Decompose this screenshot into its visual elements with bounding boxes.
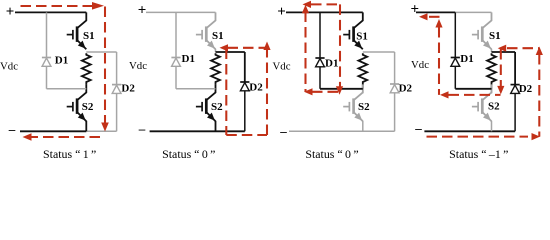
red arrow up (circuit 4 left): [435, 19, 442, 28]
wire red path left vertical (circuit 4): [438, 27, 440, 95]
transistor S1 (IGBT, conducting): [67, 12, 95, 49]
transistor S1 (IGBT, conducting): [343, 12, 368, 49]
svg-text:D2: D2: [399, 83, 413, 95]
red arrow left (circuit 3 loop top): [303, 1, 312, 8]
resistor load (circuit 1): [82, 53, 91, 83]
svg-text:S2: S2: [358, 101, 370, 113]
wire red current path, right vertical (circuit 1): [104, 7, 106, 124]
wire resistor to S2 (circuit 2): [215, 83, 217, 86]
diode D1 (circuit 1, inactive): [42, 12, 51, 88]
svg-text:–: –: [138, 121, 146, 136]
svg-text:S1: S1: [212, 30, 224, 42]
wire red loop right vertical (circuit 3): [339, 4, 341, 87]
wire red path bottom horizontal (circuit 4): [427, 136, 529, 138]
wire red path node A horizontal (circuit 4): [507, 47, 539, 49]
svg-text:D2: D2: [519, 83, 533, 95]
red arrow up (circuit 4 right): [536, 47, 543, 56]
wire node B to S2 (circuit 3, inactive): [362, 89, 364, 94]
wire bottom rail (circuit 4): [424, 130, 515, 132]
wire node A to D2 (circuit 1, inactive): [86, 51, 116, 53]
red arrow left into node A (circuit 4): [498, 45, 507, 52]
wire red path right vertical (circuit 4): [538, 54, 540, 137]
transistor S1 (IGBT, off): [472, 12, 501, 49]
diode D1 (circuit 3, conducting): [315, 12, 324, 88]
diode D2 (circuit 3, inactive): [390, 84, 399, 131]
wire S2 emitter to bottom rail (circuit 1): [85, 121, 87, 132]
svg-text:–: –: [414, 121, 422, 136]
wire resistor to node B (circuit 4): [491, 84, 493, 89]
svg-text:S2: S2: [488, 101, 500, 113]
wire red loop bottom (circuit 3): [312, 91, 340, 93]
wire red loop top (circuit 2): [228, 47, 268, 49]
red arrow up (circuit 3 loop left): [302, 5, 309, 14]
red arrow left (circuit 1 bottom): [23, 133, 32, 141]
red arrow right (circuit 1 top): [92, 2, 104, 10]
red arrow left (circuit 2 loop top): [220, 44, 229, 51]
transistor S2 (IGBT, conducting): [196, 84, 223, 121]
svg-text:+: +: [411, 2, 420, 18]
red arrow down through load (circuit 4): [497, 86, 504, 95]
wire resistor to node B (circuit 3): [362, 84, 364, 89]
wire red loop bottom (circuit 2): [226, 134, 267, 136]
wire red current path, top (circuit 1): [21, 5, 94, 7]
svg-text:Vdc: Vdc: [411, 59, 429, 71]
wire red path lower-left horizontal (circuit 4): [449, 94, 501, 96]
wire D1 to node B (circuit 3, conducting): [320, 88, 363, 90]
red arrow down (circuit 3 loop right): [336, 86, 343, 95]
transistor S2 (IGBT, off): [472, 84, 500, 121]
wire node B to S2 (circuit 4, inactive): [491, 89, 493, 94]
red arrow up (circuit 2 loop right): [263, 42, 270, 51]
wire top rail (circuit 3, conducting): [286, 11, 363, 13]
wire red loop left vertical (circuit 2): [225, 49, 227, 136]
svg-text:S1: S1: [83, 30, 95, 42]
svg-text:D2: D2: [121, 83, 135, 95]
resistor load (circuit 3): [358, 53, 367, 83]
transistor S2 (IGBT, off): [343, 84, 370, 121]
svg-text:D1: D1: [460, 53, 473, 65]
transistor S1 (IGBT, off): [196, 12, 224, 49]
wire D1 to node B (circuit 1, inactive): [47, 88, 87, 90]
wire node A to D2 (circuit 2, conducting): [216, 51, 245, 53]
wire S2 emitter to bottom rail (circuit 2): [215, 121, 217, 132]
svg-text:Status “ 0 ”: Status “ 0 ”: [305, 147, 358, 161]
wire bottom rail (circuit 1): [20, 130, 86, 132]
svg-text:+: +: [277, 4, 286, 20]
diode D1 (circuit 4, conducting): [451, 12, 460, 88]
wire top rail to D1 (circuit 4, conducting): [416, 11, 455, 13]
wire red path load vertical (circuit 4): [500, 49, 502, 87]
svg-text:Status “ 0 ”: Status “ 0 ”: [162, 147, 215, 161]
diode D1 (circuit 2, inactive): [171, 12, 180, 88]
wire red current path, bottom (circuit 1): [32, 136, 101, 138]
svg-text:+: +: [6, 4, 15, 20]
wire red loop left vertical (circuit 3): [304, 12, 306, 92]
wire D1 to node B (circuit 4, conducting): [455, 88, 491, 90]
wire bottom rail (circuit 2): [150, 130, 245, 132]
svg-text:–: –: [279, 124, 287, 139]
svg-text:S2: S2: [82, 101, 94, 113]
wire resistor to S2 (circuit 1): [85, 83, 87, 86]
wire top rail (circuit 2, inactive): [146, 11, 216, 13]
diode D2 (circuit 1, inactive): [112, 85, 121, 132]
transistor S2 (IGBT, conducting): [67, 84, 94, 121]
red arrow down (circuit 1 right): [101, 123, 109, 132]
wire bottom rail (circuit 3, inactive): [289, 130, 395, 132]
wire S1 emitter to node A (circuit 2, inactive): [215, 49, 217, 52]
wire S2 emitter to bottom rail (circuit 3, inactive): [362, 121, 364, 132]
svg-text:S1: S1: [489, 30, 501, 42]
wire D1 to node B (circuit 2, inactive): [176, 88, 216, 90]
svg-text:S2: S2: [211, 101, 223, 113]
red arrow left (circuit 3 loop bottom): [304, 88, 313, 95]
wire red loop top (circuit 3): [311, 3, 340, 5]
svg-text:D2: D2: [249, 82, 263, 94]
resistor load (circuit 2): [211, 53, 220, 83]
svg-text:D1: D1: [182, 53, 195, 65]
svg-text:–: –: [8, 121, 16, 136]
wire top rail (circuit 1): [15, 11, 86, 13]
diode D2 (circuit 2, conducting): [240, 82, 249, 131]
svg-text:D1: D1: [325, 58, 338, 70]
red arrow left into + (circuit 4): [419, 13, 428, 20]
resistor load (circuit 4): [487, 53, 496, 83]
wire red path top-left horizontal (circuit 4): [429, 16, 442, 18]
wire node A to D2 (circuit 4, conducting): [492, 51, 516, 53]
svg-text:Vdc: Vdc: [273, 61, 291, 73]
svg-text:Vdc: Vdc: [0, 61, 18, 73]
svg-text:Vdc: Vdc: [129, 60, 147, 72]
wire node A to D2 (circuit 3, inactive): [363, 51, 395, 53]
wire S1 emitter to node A (circuit 4, inactive): [491, 49, 493, 52]
svg-text:Status “ –1 ”: Status “ –1 ”: [449, 147, 508, 161]
svg-text:+: +: [138, 2, 147, 18]
diode D2 (circuit 4, conducting): [511, 85, 520, 132]
wire bottom rail to D2 (circuit 1, inactive): [86, 130, 116, 132]
red arrow left (circuit 4 lower horizontal): [440, 91, 449, 98]
wire red loop right vertical (circuit 2): [266, 47, 268, 135]
svg-text:Status “ 1 ”: Status “ 1 ”: [43, 147, 96, 161]
wire S2 emitter to bottom rail (circuit 4, inactive): [491, 121, 493, 132]
wire top rail D1 to S1 (circuit 4, inactive): [455, 11, 491, 13]
svg-text:D1: D1: [55, 55, 68, 67]
red arrow right (circuit 4 bottom): [532, 133, 541, 140]
svg-text:S1: S1: [356, 31, 368, 43]
